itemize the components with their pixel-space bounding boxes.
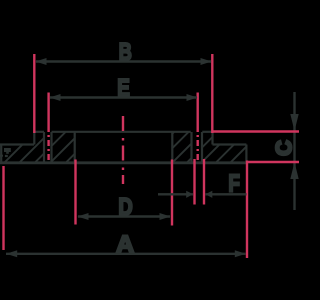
svg-text:E: E xyxy=(117,75,130,102)
svg-text:A: A xyxy=(116,232,135,259)
svg-text:D: D xyxy=(118,194,132,221)
svg-text:C: C xyxy=(272,140,296,156)
svg-text:B: B xyxy=(119,39,132,66)
svg-text:F: F xyxy=(228,171,240,198)
